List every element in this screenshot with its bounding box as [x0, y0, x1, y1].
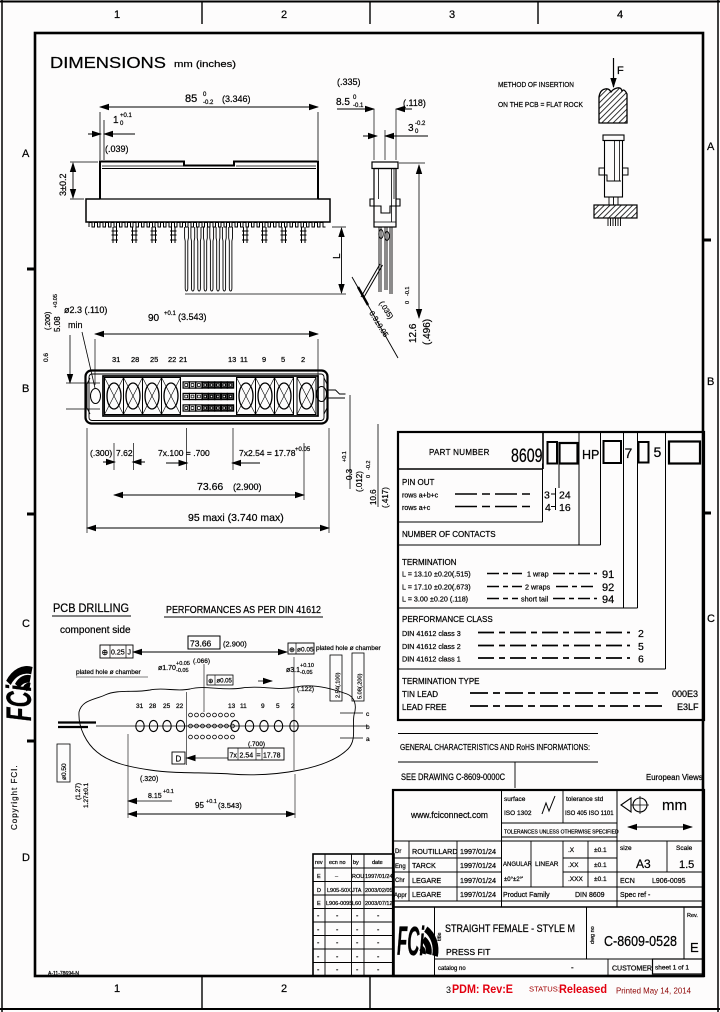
svg-text:±0.1: ±0.1: [594, 847, 607, 854]
dim 7x2.54=17.78: [232, 428, 311, 470]
svg-text:B: B: [707, 376, 714, 388]
svg-text:-: -: [317, 913, 320, 920]
svg-text:(3.543): (3.543): [218, 801, 242, 810]
svg-text:6: 6: [638, 654, 644, 666]
svg-text:5: 5: [638, 641, 644, 653]
dim 95 maxi: [87, 428, 329, 533]
svg-text:Chr: Chr: [395, 878, 405, 884]
svg-text:10.6: 10.6: [369, 489, 378, 505]
svg-text:3: 3: [449, 9, 455, 21]
page border bottom: [0, 1008, 720, 1010]
svg-text:(.417): (.417): [381, 487, 390, 508]
svg-text:1.5: 1.5: [679, 859, 694, 871]
svg-text:(.320): (.320): [140, 776, 158, 783]
svg-text:000E3: 000E3: [672, 689, 698, 699]
svg-text:Eng: Eng: [395, 864, 406, 870]
svg-text:ECN: ECN: [620, 878, 635, 885]
page border top: [0, 1, 720, 3]
small drill holes grid: [189, 713, 235, 739]
svg-text:(.039): (.039): [105, 144, 129, 154]
boxed 7x2.54=17.78: [187, 657, 295, 770]
svg-text:D: D: [317, 888, 321, 894]
svg-text:2 wraps: 2 wraps: [525, 583, 551, 592]
svg-text:L: L: [332, 253, 343, 259]
svg-text:component side: component side: [60, 625, 131, 636]
svg-text:Product Family: Product Family: [503, 892, 550, 899]
teeth row: [89, 223, 326, 228]
svg-text:±0°±2°': ±0°±2°': [504, 877, 523, 883]
svg-text:8.15: 8.15: [148, 793, 162, 800]
svg-text:SEE DRAWING C-8609-0000C: SEE DRAWING C-8609-0000C: [401, 772, 506, 782]
svg-text:TERMINATION TYPE: TERMINATION TYPE: [402, 677, 480, 686]
svg-text:-0.2: -0.2: [415, 121, 426, 127]
svg-text:Copyright FCI.: Copyright FCI.: [10, 764, 19, 830]
svg-text:12.6: 12.6: [408, 323, 419, 343]
svg-text:HP: HP: [582, 448, 599, 462]
svg-text:size: size: [620, 845, 632, 852]
svg-text:L906-0095: L906-0095: [326, 901, 352, 907]
svg-text:-0.05: -0.05: [300, 670, 313, 676]
svg-text:LINEAR: LINEAR: [535, 861, 559, 868]
svg-text:TOLERANCES UNLESS OTHERWISE SP: TOLERANCES UNLESS OTHERWISE SPECIFIED: [504, 830, 619, 836]
svg-text:ø3.1: ø3.1: [286, 667, 300, 674]
svg-text:-: -: [317, 954, 320, 961]
svg-text:22: 22: [176, 703, 184, 710]
size scale: [666, 841, 668, 872]
svg-text:0: 0: [366, 475, 372, 478]
svg-text:+0.1: +0.1: [163, 789, 174, 795]
svg-text:95: 95: [195, 801, 204, 810]
svg-text:mm: mm: [662, 797, 687, 814]
svg-text:-: -: [377, 940, 380, 947]
dimension 3±0.2 left: [58, 162, 98, 199]
svg-text:ROU: ROU: [352, 874, 364, 880]
title block: [313, 790, 704, 976]
header cell: [542, 432, 544, 469]
svg-text:+0.1: +0.1: [164, 311, 177, 317]
svg-text:5: 5: [276, 703, 280, 710]
bottom row: [435, 958, 705, 960]
svg-text:1 wrap: 1 wrap: [527, 570, 549, 579]
rev cell: [683, 907, 685, 959]
svg-text:Dr: Dr: [395, 849, 401, 855]
dimension L right: [185, 227, 346, 294]
punch tool hatched: [599, 88, 627, 123]
svg-text:21: 21: [179, 355, 187, 364]
svg-text:title: title: [437, 932, 443, 941]
svg-text:date: date: [372, 860, 383, 866]
row tick right A/B: [703, 239, 711, 242]
svg-text:F: F: [617, 65, 624, 77]
bottom view placeholder: [0, 0, 1, 1]
svg-text:+0.1: +0.1: [342, 451, 348, 462]
svg-text:9: 9: [262, 355, 266, 364]
svg-text:-: -: [336, 967, 339, 974]
svg-text:ROUTILLARD: ROUTILLARD: [412, 847, 458, 856]
svg-text:B: B: [22, 383, 29, 395]
svg-text:-: -: [317, 940, 320, 947]
svg-text:31: 31: [136, 703, 144, 710]
svg-text:DIN 41612 class 2: DIN 41612 class 2: [402, 642, 461, 651]
svg-text:ANGULAR: ANGULAR: [503, 862, 533, 868]
svg-text:Scale: Scale: [676, 845, 693, 852]
svg-text:11: 11: [240, 703, 247, 710]
svg-text:ø0.05: ø0.05: [217, 679, 233, 685]
svg-text:rows a+c: rows a+c: [402, 505, 431, 512]
svg-text:J: J: [128, 650, 132, 657]
side pins: [379, 227, 392, 294]
pin tips below pcb: [608, 218, 621, 226]
svg-text:(.118): (.118): [403, 98, 426, 108]
svg-text:2003/02/05: 2003/02/05: [365, 888, 393, 894]
svg-text:LEGARE: LEGARE: [412, 876, 441, 885]
svg-text:A: A: [707, 141, 715, 153]
svg-text:.XXX: .XXX: [568, 876, 583, 883]
svg-text:-: -: [377, 913, 380, 920]
svg-text:.X: .X: [568, 847, 575, 854]
svg-text:L906-0095: L906-0095: [652, 878, 686, 885]
small press-fit contacts middle 3x8: [183, 382, 233, 411]
svg-text:3: 3: [446, 985, 451, 995]
page border right: [717, 0, 719, 1012]
connector base flange: [86, 199, 330, 222]
svg-text:Appr: Appr: [394, 893, 407, 899]
svg-text:DIMENSIONS: DIMENSIONS: [50, 55, 166, 72]
svg-text:a: a: [366, 736, 370, 743]
mini pins: [609, 197, 618, 205]
svg-text:PERFORMANCE CLASS: PERFORMANCE CLASS: [402, 615, 493, 624]
svg-text:–: –: [335, 874, 339, 880]
svg-text:1.27±0.1: 1.27±0.1: [83, 782, 90, 808]
pcb bar hatched: [594, 205, 637, 218]
dim 7x.100=.700: [158, 428, 210, 470]
svg-text:short tail: short tail: [521, 595, 549, 604]
svg-text:(3.543): (3.543): [178, 312, 207, 322]
svg-text:=: =: [257, 753, 261, 760]
svg-text:LEAD FREE: LEAD FREE: [402, 703, 446, 712]
svg-text:1997/01/24: 1997/01/24: [460, 876, 496, 885]
digit box 2: [560, 443, 578, 464]
svg-text:(.200): (.200): [45, 312, 52, 330]
svg-text:(.012): (.012): [355, 471, 364, 492]
svg-text:1997/01/24: 1997/01/24: [365, 874, 393, 880]
svg-text:25: 25: [150, 355, 158, 364]
svg-text:surface: surface: [504, 796, 526, 803]
svg-text:5.08(.200): 5.08(.200): [358, 673, 364, 699]
svg-text:mm (inches): mm (inches): [174, 59, 236, 70]
force arrow F: [614, 58, 625, 87]
svg-text:Rev.: Rev.: [687, 913, 698, 919]
svg-text:rows a+b+c: rows a+b+c: [402, 493, 439, 500]
termination section: [398, 432, 638, 608]
column tick top 1/2: [201, 2, 203, 24]
svg-text:ISO 405 ISO 1101: ISO 405 ISO 1101: [565, 811, 614, 817]
svg-text:0.6: 0.6: [43, 353, 50, 362]
svg-text:9: 9: [261, 703, 265, 710]
svg-text:24: 24: [559, 490, 571, 502]
right rotated pitch labels: [330, 653, 364, 701]
svg-text:94: 94: [602, 594, 614, 606]
svg-text:0.25: 0.25: [111, 650, 125, 657]
svg-text:min: min: [68, 320, 83, 330]
label ø3.1: [258, 663, 314, 693]
dimension 90 (3.543): [95, 311, 318, 385]
svg-text:-: -: [356, 954, 359, 961]
svg-text:(.122): (.122): [297, 686, 314, 693]
svg-text:1: 1: [114, 983, 120, 995]
connector body upper: [100, 162, 318, 200]
centerline rows: [96, 713, 368, 738]
svg-text:1: 1: [113, 115, 119, 126]
svg-text:sheet 1 of 1: sheet 1 of 1: [655, 965, 689, 972]
svg-text:PDM: Rev:E: PDM: Rev:E: [452, 983, 513, 996]
svg-text:L = 13.10 ±0.20(.515): L = 13.10 ±0.20(.515): [402, 570, 471, 579]
svg-text:-: -: [356, 967, 359, 974]
svg-text:0: 0: [203, 92, 207, 98]
insertion method placeholder: [0, 0, 1, 1]
right dim 0.3 (.012): [342, 395, 364, 492]
footer red status text: [446, 982, 691, 996]
left pointer bar: [58, 723, 96, 728]
svg-text:ø0.05: ø0.05: [297, 647, 314, 654]
svg-text:L60: L60: [352, 901, 361, 907]
svg-text:2: 2: [301, 355, 305, 364]
svg-text:85: 85: [185, 93, 197, 105]
svg-text:L = 17.10 ±0.20(.673): L = 17.10 ±0.20(.673): [402, 583, 471, 592]
svg-text:LEGARE: LEGARE: [412, 890, 441, 899]
termination type section: [402, 677, 699, 712]
front view of connector: [58, 92, 346, 294]
svg-text:E: E: [317, 874, 321, 880]
outer box: [393, 790, 704, 976]
B row: bottom view of connector: [43, 294, 390, 533]
dim 95 (3.543) pcb: [128, 734, 295, 818]
main title area: [393, 906, 704, 908]
svg-text:1997/01/24: 1997/01/24: [460, 847, 496, 856]
svg-text:D: D: [22, 852, 30, 864]
signature grid: [393, 840, 704, 842]
right dim 10.6 (.417): [366, 424, 390, 508]
right mounting ear: [317, 378, 328, 414]
svg-text:16: 16: [559, 502, 571, 514]
svg-text:.XX: .XX: [568, 862, 579, 869]
surface cell: [562, 790, 564, 823]
svg-text:(.700): (.700): [248, 741, 265, 748]
revision history table: [313, 854, 394, 976]
svg-text:-: -: [377, 927, 380, 934]
svg-text:-0.05: -0.05: [176, 668, 189, 674]
svg-text:±0.1: ±0.1: [594, 862, 607, 869]
digit box 4: [639, 442, 649, 463]
row tick right B/C: [703, 512, 711, 515]
svg-text:+0.1: +0.1: [206, 799, 217, 805]
svg-text:-: -: [571, 963, 574, 972]
svg-text:91: 91: [602, 569, 614, 581]
number of contacts section: [398, 432, 601, 545]
svg-text:-: -: [377, 954, 380, 961]
svg-text:+0.05: +0.05: [53, 294, 59, 308]
callout ø2.3 (.110) min: [64, 305, 107, 388]
svg-text:PERFORMANCES AS PER DIN 41612: PERFORMANCES AS PER DIN 41612: [166, 605, 321, 616]
svg-text:3: 3: [408, 123, 414, 134]
pcb drilling section: [52, 603, 382, 818]
svg-text:1997/01/24: 1997/01/24: [460, 861, 496, 870]
datum D box: [172, 752, 185, 764]
long press-fit pins: [185, 227, 233, 291]
svg-text:(.335): (.335): [337, 77, 361, 87]
flange: [370, 199, 400, 213]
row tick left C/D: [27, 740, 35, 743]
svg-text:(3.346): (3.346): [222, 94, 251, 104]
svg-text:b: b: [366, 724, 370, 731]
svg-text:PIN OUT: PIN OUT: [402, 478, 435, 487]
svg-text:0: 0: [405, 301, 411, 304]
svg-text:Spec ref -: Spec ref -: [620, 892, 651, 899]
wrap post pins: [112, 227, 307, 243]
hole numbers: [136, 703, 295, 710]
svg-text:0: 0: [120, 121, 124, 127]
svg-text:73.66: 73.66: [190, 639, 212, 649]
copyright text left margin: [10, 764, 19, 830]
angular / linear: [530, 841, 532, 887]
side view of connector: [336, 77, 433, 358]
svg-text:E: E: [317, 901, 321, 907]
svg-text:plated hole ø chamber: plated hole ø chamber: [316, 645, 382, 652]
svg-text:⊕: ⊕: [102, 648, 109, 657]
mini connector side view: [599, 135, 628, 197]
svg-text:7: 7: [625, 445, 633, 461]
big contacts left: [105, 378, 181, 415]
projection cell: [621, 796, 692, 827]
svg-text:13: 13: [228, 703, 236, 710]
label ø1.70: [158, 658, 233, 712]
svg-text:5.08: 5.08: [53, 316, 62, 332]
svg-text:CUSTOMER: CUSTOMER: [612, 966, 652, 973]
svg-text:7x.100 = .700: 7x.100 = .700: [158, 448, 210, 458]
svg-text:PRESS FIT: PRESS FIT: [446, 947, 491, 957]
svg-text:1997/01/24: 1997/01/24: [460, 890, 496, 899]
svg-text:90: 90: [148, 313, 160, 324]
column tick top 2/3: [369, 2, 371, 24]
svg-text:-: -: [336, 913, 339, 920]
big contacts right: [237, 378, 317, 415]
svg-text:TIN LEAD: TIN LEAD: [402, 690, 438, 699]
svg-text:⊕: ⊕: [208, 678, 214, 685]
left mounting ear: [87, 378, 101, 414]
big drill holes: [136, 720, 298, 731]
svg-text:7x: 7x: [230, 753, 238, 760]
svg-text:3: 3: [544, 490, 550, 502]
datum frame right: [288, 643, 382, 654]
svg-text:Released: Released: [559, 982, 607, 996]
performance class section: [398, 432, 666, 669]
svg-text:NUMBER OF CONTACTS: NUMBER OF CONTACTS: [402, 530, 496, 539]
svg-text:-: -: [336, 954, 339, 961]
svg-text:ø0.50: ø0.50: [61, 763, 68, 780]
svg-text:ISO 1302: ISO 1302: [504, 810, 532, 817]
part number breakdown table: [398, 432, 704, 720]
svg-text:25: 25: [163, 703, 171, 710]
svg-text:31: 31: [112, 355, 120, 364]
svg-text:-0.1: -0.1: [405, 287, 411, 296]
svg-text:+0.1: +0.1: [120, 113, 133, 119]
svg-text:DIN 8609: DIN 8609: [575, 892, 605, 899]
page border left: [1, 0, 3, 1012]
svg-text:+0.05: +0.05: [295, 447, 311, 453]
digit box 3: [604, 441, 622, 463]
svg-text:(.066): (.066): [193, 658, 210, 665]
svg-text:DIN 41612 class 3: DIN 41612 class 3: [402, 629, 461, 638]
svg-text:+0.10: +0.10: [300, 663, 314, 669]
svg-text:C-8609-0528: C-8609-0528: [604, 934, 677, 950]
column tick bottom 1/2: [201, 977, 203, 1009]
svg-text:28: 28: [131, 355, 139, 364]
dim 8.5 (.335): [336, 77, 426, 160]
svg-text:METHOD OF INSERTION: METHOD OF INSERTION: [498, 80, 574, 89]
svg-text:8609: 8609: [511, 446, 543, 467]
svg-text:GENERAL CHARACTERISTICS AND Ro: GENERAL CHARACTERISTICS AND RoHS INFORMA…: [400, 742, 590, 752]
dim (.320) 8.15: [128, 776, 174, 801]
svg-text:C: C: [22, 618, 30, 630]
svg-text:D: D: [176, 755, 182, 764]
svg-text:2.54: 2.54: [240, 753, 254, 760]
pin out section: [398, 464, 571, 523]
svg-text:(.300): (.300): [90, 448, 112, 458]
svg-text:(2.900): (2.900): [233, 482, 262, 492]
svg-text:0: 0: [353, 95, 357, 101]
svg-text:2.54(.100): 2.54(.100): [336, 672, 342, 698]
row tick left A/B: [27, 268, 35, 271]
column tick bottom 2/3: [369, 977, 371, 1009]
svg-text:plated hole ø chamber: plated hole ø chamber: [76, 669, 142, 676]
svg-text:C: C: [707, 613, 715, 625]
svg-text:7.62: 7.62: [116, 448, 133, 458]
label plated hole left: [76, 669, 148, 677]
svg-text:-: -: [356, 927, 359, 934]
svg-text:rev: rev: [315, 860, 323, 866]
svg-text:ecn no: ecn no: [329, 860, 346, 866]
svg-text:catalog no: catalog no: [438, 966, 466, 972]
dim 12.6 (.496): [399, 163, 433, 345]
svg-text:by: by: [353, 860, 359, 866]
pcb blob outline: [79, 686, 355, 775]
svg-text:DIN 41612 class 1: DIN 41612 class 1: [402, 655, 461, 664]
svg-text:2: 2: [281, 9, 287, 21]
dim (.300) 7.62: [90, 443, 145, 470]
svg-text:c: c: [366, 711, 370, 718]
svg-text:A3: A3: [636, 857, 651, 871]
svg-text:-0.2: -0.2: [203, 100, 214, 106]
svg-text:dwg no: dwg no: [590, 926, 596, 944]
svg-text:ON THE PCB = FLAT ROCK: ON THE PCB = FLAT ROCK: [498, 100, 583, 109]
svg-text:www.fciconnect.com: www.fciconnect.com: [410, 810, 488, 820]
dim 3: [363, 121, 428, 160]
general characteristics block: [398, 734, 703, 789]
datum frame 0.25 J: [100, 645, 133, 658]
svg-text:A: A: [22, 148, 30, 160]
svg-text:5: 5: [281, 355, 285, 364]
svg-text:-: -: [336, 940, 339, 947]
svg-text:ø1.70: ø1.70: [158, 665, 176, 672]
svg-text:7x2.54 = 17.78: 7x2.54 = 17.78: [239, 448, 296, 458]
row tick left B/C: [27, 513, 35, 516]
method of insertion: [498, 58, 637, 226]
body outline: [86, 371, 328, 424]
svg-text:±0.1: ±0.1: [594, 876, 607, 883]
svg-text:STRAIGHT FEMALE - STYLE M: STRAIGHT FEMALE - STYLE M: [445, 923, 575, 935]
svg-text:1: 1: [114, 9, 120, 21]
svg-text:(1.27): (1.27): [75, 783, 82, 800]
